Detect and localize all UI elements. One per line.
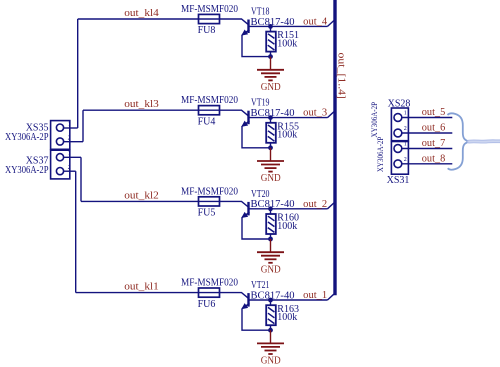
svg-text:out_[1..4]: out_[1..4]	[336, 53, 347, 100]
node collector of VT20	[268, 206, 273, 211]
wire riser to row 2	[82, 110, 84, 142]
svg-text:MF-MSMF020: MF-MSMF020	[181, 4, 238, 15]
bus entry out_2	[328, 203, 334, 209]
svg-text:MF-MSMF020: MF-MSMF020	[181, 186, 238, 197]
wire net out_4 collector to bus	[271, 25, 328, 27]
svg-text:2: 2	[68, 135, 71, 142]
svg-text:XY306A-2P: XY306A-2P	[369, 102, 379, 138]
svg-text:out_kl1: out_kl1	[124, 282, 159, 293]
node emitter/resistor bottom of VT18	[268, 54, 273, 59]
wire net out_kl4 to fuse FU8	[78, 18, 199, 20]
svg-text:FU6: FU6	[198, 299, 216, 310]
svg-text:out_kl4: out_kl4	[124, 8, 159, 19]
svg-text:1: 1	[404, 111, 407, 117]
bus entry out_4	[328, 21, 334, 27]
svg-text:2: 2	[68, 164, 71, 171]
bus out_[1..4]	[333, 0, 336, 295]
wire net out_6 from XS pin	[402, 132, 453, 134]
fuse FU8 MF-MSMF020	[199, 14, 220, 23]
wire net out_kl3 to fuse FU4	[83, 109, 199, 111]
svg-text:out_kl3: out_kl3	[124, 99, 159, 110]
wire net out_3 collector to bus	[271, 117, 328, 119]
ground GND (net out_3 row)	[257, 148, 284, 172]
transistor VT21 BC817-40	[242, 293, 270, 309]
ground GND (net out_2 row)	[257, 239, 284, 263]
resistor R151 100k	[266, 26, 276, 56]
brace grouping out_5..out_8	[448, 113, 470, 169]
ground GND (net out_4 row)	[257, 57, 284, 81]
wire fuse FU6 to transistor VT21 base	[220, 293, 249, 299]
wire XS pin row 3 to riser	[64, 156, 82, 158]
node collector of VT19	[268, 115, 273, 120]
svg-text:2: 2	[404, 126, 407, 132]
resistor R155 100k	[266, 118, 276, 148]
wire fuse FU4 to transistor VT19 base	[220, 110, 249, 116]
svg-text:100k: 100k	[277, 312, 297, 323]
resistor R160 100k	[266, 209, 276, 239]
wire riser to row 4	[75, 171, 77, 292]
wire fuse FU5 to transistor VT20 base	[220, 201, 249, 207]
svg-text:GND: GND	[261, 264, 281, 275]
resistor R163 100k	[266, 300, 276, 330]
wire XS pin row 2 to riser	[64, 141, 84, 143]
svg-text:1: 1	[404, 142, 407, 148]
node collector of VT18	[268, 24, 273, 29]
wire riser to row 1	[77, 19, 79, 128]
node emitter/resistor bottom of VT20	[268, 237, 273, 242]
svg-text:GND: GND	[261, 173, 281, 184]
wire net out_kl2 to fuse FU5	[81, 200, 199, 202]
svg-text:out_5: out_5	[422, 107, 446, 118]
svg-text:FU5: FU5	[198, 208, 216, 219]
bus entry out_1	[328, 294, 334, 300]
svg-text:out_3: out_3	[303, 108, 327, 119]
wire riser to row 3	[80, 157, 82, 201]
wire XS pin row 4 to riser	[64, 170, 76, 172]
svg-text:100k: 100k	[277, 130, 297, 141]
svg-text:XY306A-2P: XY306A-2P	[5, 132, 49, 143]
svg-text:XY306A-2P: XY306A-2P	[375, 136, 385, 172]
connector XS35	[51, 121, 70, 150]
cable to the right	[469, 139, 500, 143]
svg-text:XS28: XS28	[388, 99, 411, 110]
transistor VT19 BC817-40	[242, 111, 270, 127]
svg-text:out_4: out_4	[303, 16, 327, 27]
svg-text:FU8: FU8	[198, 25, 216, 36]
wire emitter of VT19 to ground node	[242, 126, 271, 148]
svg-text:100k: 100k	[277, 221, 297, 232]
fuse FU4 MF-MSMF020	[199, 106, 220, 115]
wire XS pin row 1 to riser	[64, 127, 78, 129]
node emitter/resistor bottom of VT19	[268, 145, 273, 150]
svg-text:100k: 100k	[277, 38, 297, 49]
svg-text:MF-MSMF020: MF-MSMF020	[181, 278, 238, 289]
ground GND (net out_1 row)	[257, 330, 284, 354]
svg-text:out_1: out_1	[303, 290, 327, 301]
wire net out_2 collector to bus	[271, 208, 328, 210]
connector XS31	[391, 142, 408, 175]
fuse FU5 MF-MSMF020	[199, 197, 220, 206]
wire emitter of VT20 to ground node	[242, 217, 271, 239]
svg-text:2: 2	[404, 157, 407, 163]
node collector of VT21	[268, 298, 273, 303]
svg-text:1: 1	[68, 121, 71, 128]
transistor VT20 BC817-40	[242, 202, 270, 218]
wire emitter of VT21 to ground node	[242, 308, 271, 330]
wire net out_7 from XS pin	[402, 148, 453, 150]
svg-text:out_7: out_7	[422, 138, 446, 149]
wire net out_kl1 to fuse FU6	[76, 292, 199, 294]
svg-text:XY306A-2P: XY306A-2P	[5, 165, 49, 176]
wire net out_8 from XS pin	[402, 163, 453, 165]
svg-text:out_kl2: out_kl2	[124, 190, 159, 201]
svg-text:GND: GND	[261, 356, 281, 367]
svg-text:out_2: out_2	[303, 199, 327, 210]
wire net out_5 from XS pin	[402, 117, 453, 119]
svg-text:1: 1	[68, 150, 71, 157]
transistor VT18 BC817-40	[242, 20, 270, 36]
svg-text:XS31: XS31	[387, 175, 410, 186]
wire net out_1 collector to bus	[271, 299, 328, 301]
fuse FU6 MF-MSMF020	[199, 288, 220, 297]
connector XS37	[51, 150, 70, 179]
wire fuse FU8 to transistor VT18 base	[220, 19, 249, 25]
connector XS28	[391, 108, 408, 141]
bus entry out_3	[328, 112, 334, 118]
wire emitter of VT18 to ground node	[242, 35, 271, 57]
svg-text:out_8: out_8	[422, 153, 446, 164]
node emitter/resistor bottom of VT21	[268, 328, 273, 333]
svg-text:MF-MSMF020: MF-MSMF020	[181, 95, 238, 106]
svg-text:FU4: FU4	[198, 116, 216, 127]
svg-text:GND: GND	[261, 82, 281, 93]
svg-text:out_6: out_6	[422, 123, 446, 134]
